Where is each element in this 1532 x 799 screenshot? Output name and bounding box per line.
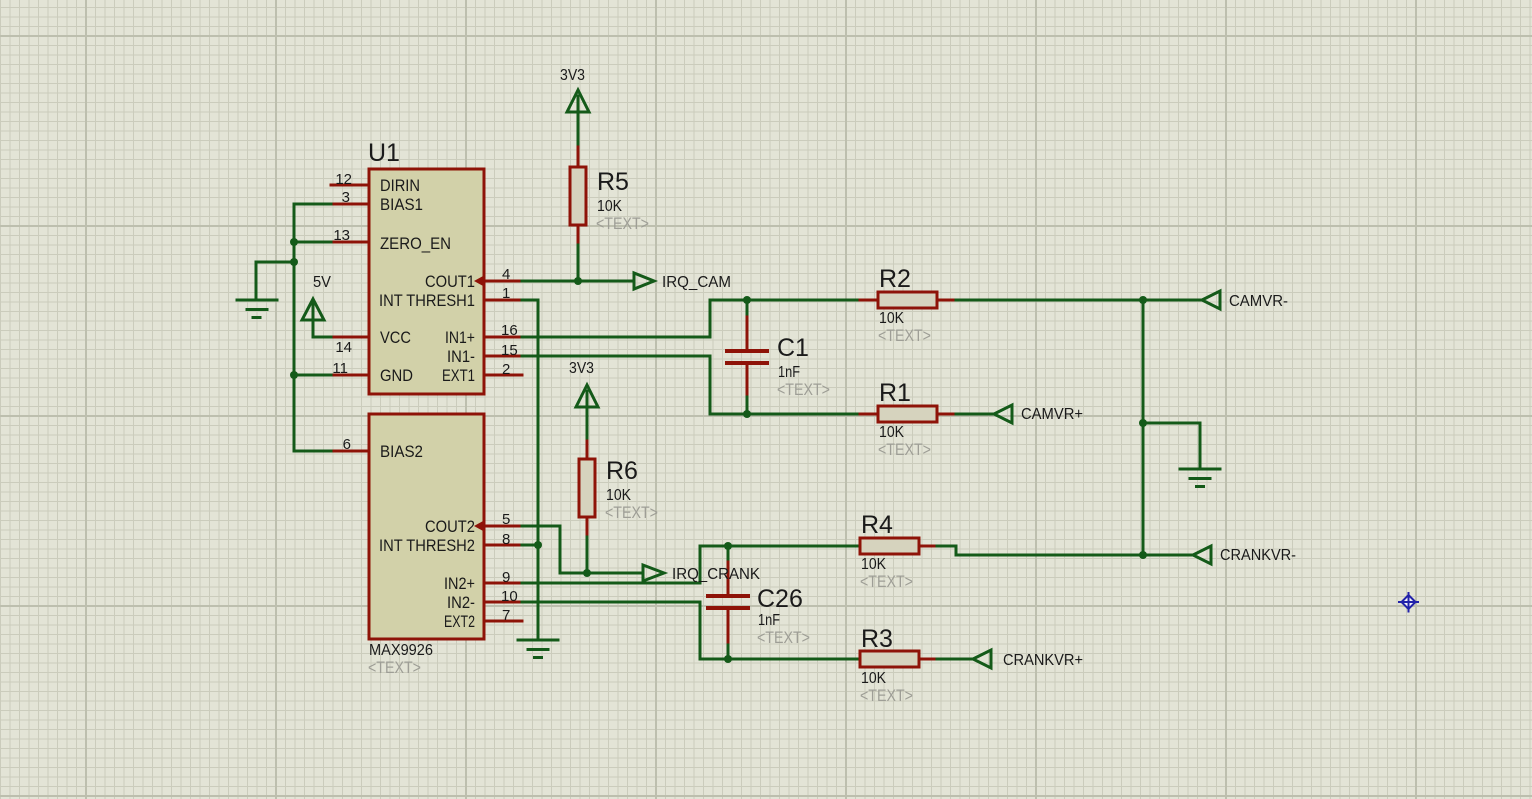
port CAMVR- input arrow: [1202, 291, 1220, 309]
svg-text:COUT1: COUT1: [425, 272, 475, 291]
svg-text:<TEXT>: <TEXT>: [860, 572, 913, 591]
svg-text:ZERO_EN: ZERO_EN: [380, 234, 451, 253]
svg-text:GND: GND: [380, 366, 413, 385]
wire R5 to IRQ_CAM node: [577, 245, 580, 281]
wire pin9 IN2+ to C26 top: [522, 546, 728, 583]
capacitor C26 red stems: [727, 562, 730, 642]
pin 4 output arrowhead: [474, 276, 484, 287]
resistor R2 right lead: [937, 299, 956, 302]
wire pin10 IN2- to C26 bottom: [522, 602, 728, 659]
svg-text:R4: R4: [861, 511, 893, 539]
node bus-pin11 junction: [290, 371, 298, 379]
svg-text:<TEXT>: <TEXT>: [860, 686, 913, 705]
resistor R4 right lead: [919, 545, 937, 548]
wire CAMVR- vertical to CRANKVR-: [1142, 300, 1145, 555]
node CAMVR- junction: [1139, 296, 1147, 304]
port CRANKVR- input arrow: [1193, 546, 1211, 564]
pin 10 IN2- stub: [484, 601, 522, 604]
node IRQ_CAM junction: [574, 277, 582, 285]
svg-text:8: 8: [502, 531, 510, 548]
ground G2: [518, 640, 558, 658]
IC U1 top half box: [369, 169, 484, 394]
svg-text:R2: R2: [879, 265, 911, 293]
capacitor C1 top lead: [746, 300, 749, 349]
resistor R3 body: [860, 651, 919, 667]
svg-text:EXT1: EXT1: [442, 366, 475, 385]
svg-text:CRANKVR+: CRANKVR+: [1003, 652, 1083, 669]
svg-text:IRQ_CAM: IRQ_CAM: [662, 274, 731, 291]
resistor R1 body: [878, 406, 937, 422]
node R6 junction: [583, 569, 591, 577]
svg-text:CRANKVR-: CRANKVR-: [1220, 547, 1296, 564]
svg-text:3: 3: [342, 189, 350, 206]
node C26 bottom junction: [724, 655, 732, 663]
svg-text:7: 7: [502, 607, 510, 624]
capacitor C1 red stems: [746, 317, 749, 397]
power 3V3 arrow (R5): [567, 90, 589, 112]
wire C26 top to R4: [728, 545, 860, 548]
IC U1 bottom half box: [369, 414, 484, 639]
capacitor C26 plates: [708, 596, 748, 608]
svg-text:EXT2: EXT2: [444, 612, 475, 631]
wire pin11 to bus: [294, 374, 331, 377]
resistor R6 top lead: [586, 441, 589, 459]
power 3V3 arrow (R6): [576, 385, 598, 407]
node C26 top junction: [724, 542, 732, 550]
svg-text:14: 14: [335, 339, 352, 356]
wire R1 row: [747, 413, 860, 416]
svg-text:<TEXT>: <TEXT>: [605, 503, 658, 522]
resistor R1 right lead: [937, 413, 956, 416]
wire C1 top node to R2: [747, 299, 860, 302]
origin marker: [1398, 592, 1419, 613]
wire pin8 INT THRESH2 to vertical: [522, 544, 538, 547]
resistor R2 body: [878, 292, 937, 308]
capacitor C26 green stems: [727, 546, 730, 659]
wire C1 bottom node: [746, 397, 749, 414]
svg-text:R5: R5: [597, 168, 629, 196]
svg-text:3V3: 3V3: [569, 360, 594, 377]
svg-text:IRQ_CRANK: IRQ_CRANK: [672, 566, 760, 583]
svg-text:9: 9: [502, 569, 510, 586]
wire 3V3 to R6: [586, 391, 589, 441]
svg-text:VCC: VCC: [380, 328, 411, 347]
svg-text:<TEXT>: <TEXT>: [757, 628, 810, 647]
wire pin13 to bus: [294, 241, 331, 244]
wire pin15 IN1- to C1 bottom: [522, 356, 747, 414]
svg-text:11: 11: [332, 360, 348, 377]
svg-text:<TEXT>: <TEXT>: [368, 658, 421, 677]
pin 2 EXT1 stub: [484, 374, 522, 377]
wire bus to ground tap: [256, 262, 294, 300]
svg-text:R3: R3: [861, 625, 893, 653]
node bus-gnd junction: [290, 258, 298, 266]
svg-text:1nF: 1nF: [758, 612, 780, 629]
resistor R3 right lead: [919, 658, 937, 661]
svg-text:10K: 10K: [861, 556, 886, 573]
svg-text:13: 13: [333, 227, 350, 244]
wire pin4 COUT1 to IRQ_CAM: [522, 280, 634, 283]
pin 1 INT THRESH1 stub: [484, 299, 522, 302]
svg-text:10K: 10K: [879, 310, 904, 327]
svg-text:U1: U1: [368, 139, 400, 167]
svg-text:10K: 10K: [597, 198, 622, 215]
ground G3: [1180, 469, 1220, 487]
wire C26 bottom to R3: [728, 658, 860, 661]
ground G1: [237, 300, 277, 318]
pin 15 IN1- stub: [484, 355, 522, 358]
svg-text:10: 10: [501, 588, 518, 605]
wire R1 to CAMVR+: [956, 413, 994, 416]
svg-text:C26: C26: [757, 585, 803, 613]
svg-text:10K: 10K: [606, 487, 631, 504]
pin 8 INT THRESH2 stub: [484, 544, 522, 547]
svg-text:10K: 10K: [861, 670, 886, 687]
node gnd tee junction: [1139, 419, 1147, 427]
svg-text:12: 12: [335, 171, 352, 188]
resistor R3 left lead: [860, 658, 878, 661]
wire BIAS1/BIAS2 left vertical bus: [294, 204, 331, 451]
wire 5V to VCC: [313, 304, 331, 337]
port IRQ_CAM output arrow: [634, 273, 654, 289]
pin 5 output arrowhead: [474, 521, 484, 532]
resistor R4 body: [860, 538, 919, 554]
svg-text:INT THRESH1: INT THRESH1: [379, 291, 475, 310]
svg-text:3V3: 3V3: [560, 67, 585, 84]
resistor R5 body: [570, 167, 586, 225]
svg-text:<TEXT>: <TEXT>: [878, 326, 931, 345]
svg-text:<TEXT>: <TEXT>: [596, 214, 649, 233]
pin 5 COUT2 stub: [484, 525, 522, 528]
resistor R2 left lead: [860, 299, 878, 302]
pin 7 EXT2 stub: [484, 620, 522, 623]
svg-text:IN2-: IN2-: [447, 593, 475, 612]
svg-text:C1: C1: [777, 334, 809, 362]
pin 11 GND stub: [331, 374, 369, 377]
resistor R1 left lead: [860, 413, 878, 416]
svg-text:<TEXT>: <TEXT>: [878, 440, 931, 459]
svg-text:5: 5: [502, 511, 510, 528]
wire R2 to CAMVR-: [956, 299, 1202, 302]
wire 3V3 to R5: [577, 96, 580, 147]
resistor R4 left lead: [860, 545, 878, 548]
svg-text:1: 1: [502, 285, 510, 302]
pin 13 ZERO_EN stub: [331, 241, 369, 244]
power 5V arrow: [302, 299, 324, 320]
resistor R5 top lead: [577, 147, 580, 167]
node C1 top junction: [743, 296, 751, 304]
wire R4 jog to CRANKVR- row: [937, 546, 1193, 555]
node pin8 junction: [534, 541, 542, 549]
pin 12 DIRIN stub: [331, 184, 369, 187]
svg-text:10K: 10K: [879, 424, 904, 441]
svg-text:1nF: 1nF: [778, 364, 800, 381]
port IRQ_CRANK output arrow: [643, 565, 664, 581]
svg-text:MAX9926: MAX9926: [369, 642, 433, 659]
wire pin16 IN1+ to C1 top: [522, 300, 747, 337]
svg-text:6: 6: [343, 436, 351, 453]
svg-text:BIAS2: BIAS2: [380, 442, 423, 461]
wire pin1 INT THRESH1 down: [522, 300, 538, 640]
svg-text:IN1+: IN1+: [445, 328, 475, 347]
svg-text:IN1-: IN1-: [447, 347, 475, 366]
svg-text:CAMVR+: CAMVR+: [1021, 406, 1083, 423]
node bus-pin13 junction: [290, 238, 298, 246]
node C1 bottom junction: [743, 410, 751, 418]
svg-text:16: 16: [501, 322, 518, 339]
svg-text:IN2+: IN2+: [444, 574, 475, 593]
pin 14 VCC stub: [331, 336, 369, 339]
resistor R5 bottom lead: [577, 225, 580, 245]
pin 4 COUT1 stub: [484, 280, 522, 283]
node CRANKVR- junction: [1139, 551, 1147, 559]
wire R6 to IRQ_CRANK row: [586, 537, 589, 573]
svg-text:R6: R6: [606, 457, 638, 485]
pin 6 BIAS2 stub: [331, 450, 369, 453]
svg-text:4: 4: [502, 266, 510, 283]
pin 9 IN2+ stub: [484, 582, 522, 585]
resistor R6 bottom lead: [586, 517, 589, 537]
svg-text:2: 2: [502, 361, 510, 378]
svg-text:<TEXT>: <TEXT>: [777, 380, 830, 399]
pin 3 BIAS1 stub: [331, 203, 369, 206]
svg-text:BIAS1: BIAS1: [380, 195, 423, 214]
svg-text:COUT2: COUT2: [425, 517, 475, 536]
resistor R6 body: [579, 459, 595, 517]
svg-text:R1: R1: [879, 379, 911, 407]
capacitor C1 plates: [727, 351, 767, 363]
port CRANKVR+ input arrow: [973, 650, 991, 668]
svg-text:5V: 5V: [313, 274, 331, 291]
wire pin5 COUT2 to IRQ_CRANK: [522, 526, 643, 573]
pin 16 IN1+ stub: [484, 336, 522, 339]
svg-text:15: 15: [501, 342, 518, 359]
wire R3 to CRANKVR+: [937, 658, 973, 661]
svg-text:INT THRESH2: INT THRESH2: [379, 536, 475, 555]
wire to ground G3: [1143, 423, 1200, 469]
svg-text:DIRIN: DIRIN: [380, 176, 420, 195]
port CAMVR+ input arrow: [994, 405, 1012, 423]
svg-text:CAMVR-: CAMVR-: [1229, 293, 1288, 310]
